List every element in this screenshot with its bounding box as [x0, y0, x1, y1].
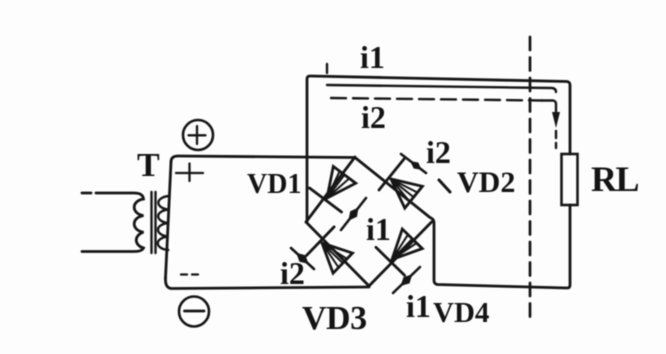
svg-text:i1: i1: [360, 39, 385, 75]
diode VD2 triangle: [391, 179, 422, 208]
secondary left wire: [166, 162, 172, 278]
i2 current annotation line (dashed, below i1 line): [331, 98, 542, 101]
i2 arrow near VD3: [291, 248, 314, 269]
wire secondary top (to node T of bridge): [171, 156, 355, 162]
diode VD1 branch wire (node T to node L): [306, 157, 355, 222]
diode VD1 triangle: [327, 166, 356, 198]
plus sign (secondary top polarity): [176, 164, 203, 182]
diode VD4 branch wire (node B to node R): [369, 222, 432, 286]
diode VD4 cathode bar: [376, 247, 405, 275]
diode VD2 cathode bar: [379, 159, 404, 190]
diode VD4 triangle: [392, 229, 422, 260]
diode VD3 cathode bar: [306, 227, 334, 256]
diode VD3 branch wire (node L to node B): [306, 222, 369, 286]
svg-text:i1: i1: [366, 211, 391, 247]
diode VD3 triangle: [322, 243, 353, 273]
long vertical dashed separator line: [529, 37, 532, 324]
stray dash after i2 arrow: [439, 180, 450, 192]
svg-text:i2: i2: [280, 255, 305, 291]
arrowhead i2 near VD2: [410, 161, 422, 170]
stray tick above top rail: [326, 64, 328, 73]
svg-text:VD2: VD2: [457, 166, 515, 199]
arrowhead of dashed i2 path pointing down: [552, 112, 560, 128]
minus sign (secondary bottom polarity): [181, 273, 198, 275]
i1 arrow inside bridge: [341, 198, 366, 230]
svg-text:i2: i2: [361, 99, 386, 135]
svg-text:VD1: VD1: [247, 169, 301, 200]
arrowhead i2 near VD3: [296, 253, 308, 264]
wire secondary bottom (to node B of bridge): [165, 278, 369, 289]
transformer core: [150, 192, 152, 253]
arrowhead i1 inside bridge: [348, 208, 358, 221]
plus-in-circle terminal symbol: [183, 120, 213, 150]
transformer T secondary winding: [158, 196, 169, 250]
resistor RL body: [562, 154, 578, 205]
diode VD1 cathode bar: [310, 188, 342, 212]
arrowhead i1 near VD4: [400, 274, 412, 286]
wire top rail from node L up and right to RL: [307, 76, 570, 222]
i1 current annotation line (solid, under top rail): [327, 85, 556, 92]
svg-text:RL: RL: [591, 159, 638, 199]
svg-text:VD3: VD3: [302, 300, 367, 337]
svg-text:i1: i1: [406, 288, 431, 324]
svg-text:T: T: [137, 147, 160, 184]
transformer T primary winding: [82, 192, 91, 195]
i2 arrow near VD2: [401, 154, 426, 173]
svg-text:i2: i2: [426, 134, 451, 170]
minus-in-circle terminal symbol: [179, 297, 209, 327]
i1 arrow near VD4: [393, 267, 420, 293]
svg-text:VD4: VD4: [433, 297, 489, 329]
diode VD2 branch wire (node T to node R): [355, 158, 430, 218]
wire bottom rail right: RL down and left up to node R: [431, 205, 570, 288]
